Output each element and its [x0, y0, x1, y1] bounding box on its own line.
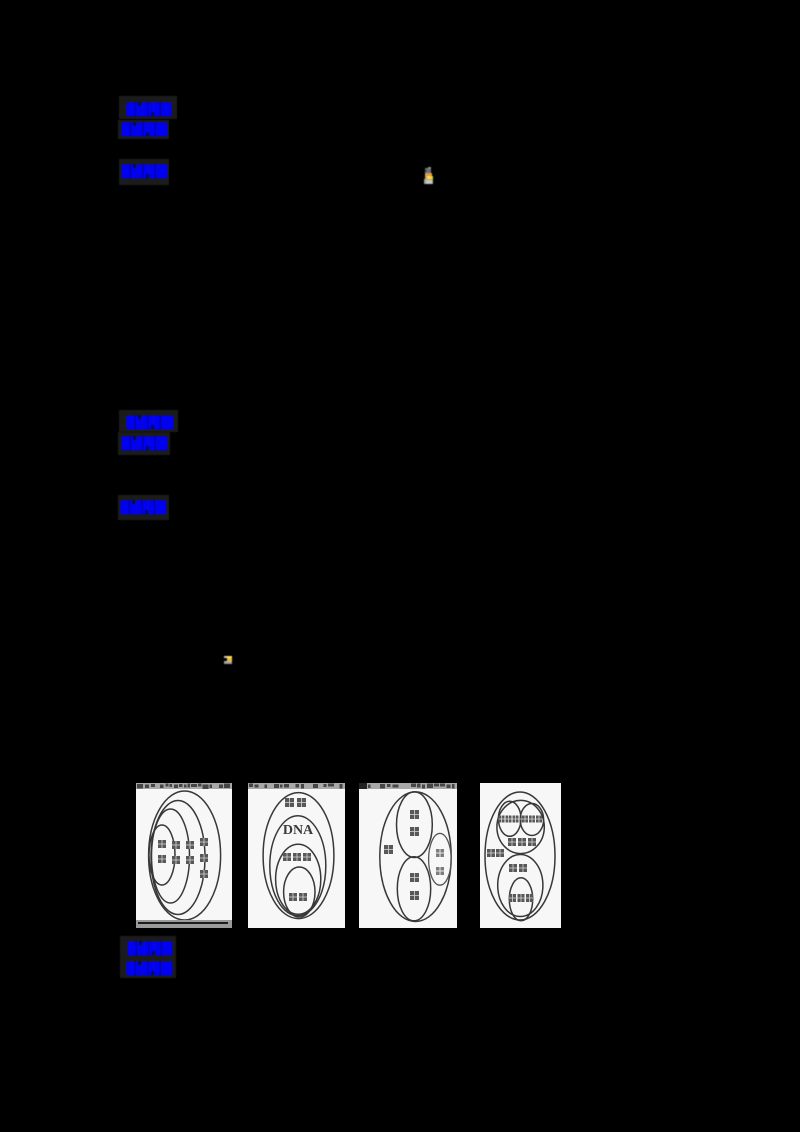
svg-text:DNA: DNA: [283, 823, 314, 838]
